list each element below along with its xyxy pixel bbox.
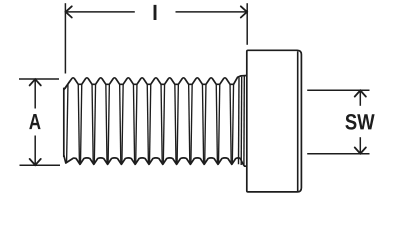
dimension A: label A (29, 114, 40, 129)
dimension SW: dimension line upper segment (359, 91, 361, 106)
screw thread: chamfer ridge at tip (65, 81, 70, 89)
dimension I: dimension line right segment (176, 11, 248, 13)
screw thread: crest outline top (64, 76, 247, 90)
dimension I: label I (154, 5, 157, 20)
dimension A: extension tick top (19, 78, 59, 80)
dimension I: extension line left (64, 3, 66, 73)
dimension SW: extension line bottom (307, 153, 369, 155)
screw head (cylindrical, side view) (247, 50, 302, 192)
dimension A: dimension line upper segment (34, 79, 36, 108)
dimension A: extension tick bottom (20, 164, 61, 166)
dimension I: arrowhead left (66, 6, 72, 17)
screw head chamfer line (297, 51, 299, 191)
dimension A: arrowhead down (30, 159, 41, 165)
dimension SW: label SW (345, 114, 374, 130)
screw thread: flank lines (67, 85, 234, 164)
dimension SW: arrowhead down (355, 147, 366, 153)
dimension SW: extension line top (307, 89, 369, 91)
screw thread: runout lines at head (239, 76, 245, 165)
screw thread: crest outline bottom (64, 155, 247, 166)
screw thread: left end face (63, 88, 65, 157)
dimension I: arrowhead right (241, 6, 247, 17)
dimension SW: dimension line lower segment (359, 137, 361, 153)
dimension A: dimension line lower segment (34, 136, 36, 166)
dimension I: extension line right (246, 3, 248, 45)
dimension SW: arrowhead up (355, 90, 366, 96)
dimension A: arrowhead up (30, 79, 41, 85)
dimension I: dimension line left segment (66, 11, 135, 13)
